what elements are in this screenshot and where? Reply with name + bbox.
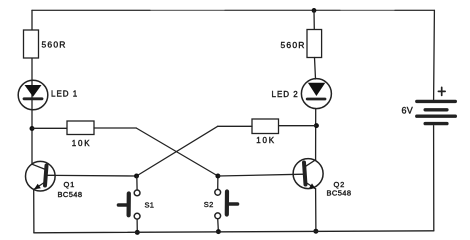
node top-rail junction (312, 8, 317, 13)
wire S1 to bottom rail (136, 219, 138, 232)
resistor 10K (left) (67, 121, 94, 148)
wire Q1 emitter to bottom rail (33, 190, 35, 233)
LED 2 (272, 79, 332, 109)
wire battery to bottom rail (433, 126, 435, 231)
transistor Q1 (BC548) (26, 161, 83, 198)
node S1 bottom junction (135, 230, 140, 235)
LED 1 (18, 80, 78, 110)
wire Q2 base line (218, 174, 304, 176)
battery B1 6V (402, 10, 456, 123)
wire base node to S2 (217, 176, 219, 189)
resistor 560R (left) (24, 30, 67, 58)
node Q2 collector junction (314, 123, 319, 128)
wire 10K left output (94, 127, 136, 129)
wire 10K right input (218, 125, 252, 127)
switch S2 (204, 189, 238, 218)
wire base node to S1 (136, 176, 138, 190)
wire LED 2 to Q2 collector (315, 109, 317, 160)
wire right branch vertical top (313, 10, 315, 30)
svg-text:10K: 10K (256, 136, 276, 145)
node Q1 base junction (134, 174, 139, 179)
svg-text:10K: 10K (72, 139, 92, 148)
wire cross-coupling diagonal right-to-left (137, 126, 218, 176)
wire collector node to 10K left (32, 127, 67, 129)
svg-text:Q1: Q1 (64, 180, 76, 189)
svg-text:BC548: BC548 (327, 188, 352, 197)
svg-text:6V: 6V (402, 106, 414, 116)
node Q1 collector junction (30, 126, 35, 131)
svg-text:560R: 560R (281, 40, 306, 50)
svg-text:BC548: BC548 (58, 190, 83, 199)
resistor 10K (right) (252, 119, 279, 145)
wire 560R to LED 2 (315, 58, 316, 80)
svg-text:560R: 560R (42, 40, 67, 50)
switch S1 (119, 190, 155, 219)
svg-text:S1: S1 (145, 200, 155, 209)
svg-text:LED 2: LED 2 (272, 90, 299, 99)
node S2 bottom junction (216, 229, 221, 234)
svg-text:LED 1: LED 1 (51, 90, 78, 99)
wire top rail (32, 9, 434, 11)
node Q2 base junction (215, 174, 220, 179)
node Q2 emitter bottom junction (313, 229, 318, 234)
wire 10K right output to collector node (279, 125, 317, 127)
wire Q2 emitter to bottom rail (315, 189, 317, 231)
resistor 560R (right) (281, 30, 322, 58)
transistor Q2 (BC548) (293, 159, 351, 198)
wire S2 to bottom rail (217, 219, 220, 232)
wire left branch vertical (31, 10, 33, 164)
wire Q1 base line (55, 174, 137, 177)
wire bottom rail (34, 231, 434, 233)
svg-text:S2: S2 (204, 200, 214, 209)
wire cross-coupling diagonal left-to-right (136, 128, 218, 176)
